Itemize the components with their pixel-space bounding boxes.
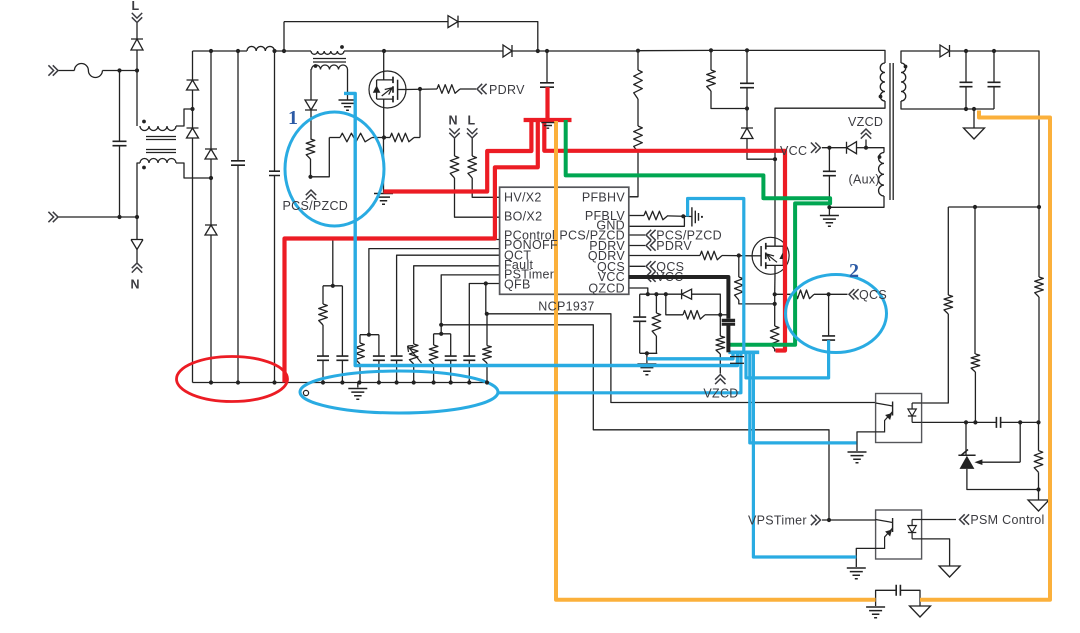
optocoupler U4 <box>876 510 922 559</box>
ground G14 right <box>1028 500 1049 511</box>
annotation ellipse 2 <box>786 275 887 353</box>
flag PSM Control <box>960 514 970 524</box>
wire divider to node <box>974 372 976 422</box>
wire C11 to bus <box>378 360 380 382</box>
svg-text:PDRV: PDRV <box>489 83 525 97</box>
PFC T1 aux winding <box>312 65 348 70</box>
junction qzcd a <box>646 292 650 296</box>
T2 secondary polarity dot <box>904 65 908 69</box>
wire col2 down to bus <box>210 235 212 383</box>
resistor R9 snub <box>707 70 716 91</box>
diode D1 bridge <box>187 80 199 90</box>
resistor R7 fbhv1 <box>634 70 643 99</box>
black dash bundle2 <box>730 362 744 364</box>
resistor R13 div upper <box>971 354 980 372</box>
diode DN on N line <box>131 240 143 250</box>
annotation ellipse 1 <box>285 112 384 226</box>
resistor R14 pcontrol <box>319 304 328 325</box>
capacitor C7 comp <box>996 417 1000 428</box>
wire choke top left <box>136 71 138 127</box>
junction tl431 cath <box>964 420 968 424</box>
ground G9 opto1 <box>848 452 867 463</box>
cyan bundle bar <box>728 350 759 354</box>
resistor R23 qzcd row2 <box>683 311 705 320</box>
flag QCS e2 <box>849 289 859 299</box>
wire qcs sense link <box>774 294 776 326</box>
wire PSTimer bracket <box>434 333 451 335</box>
red staircase2 <box>285 120 538 383</box>
junction bus 8 <box>467 380 471 384</box>
wire PSTimer R leg <box>433 334 435 345</box>
optocoupler U2 <box>876 394 922 443</box>
flag VPSTimer <box>811 515 821 525</box>
wire C13 to bus <box>450 360 452 382</box>
junction ref drop <box>1018 420 1022 424</box>
annotation ellipse red <box>177 357 288 402</box>
wire rail diode to hub <box>512 50 547 52</box>
PFC aux polarity dot <box>314 64 318 68</box>
wire C10 to bus <box>341 360 343 382</box>
svg-text:PFBHV: PFBHV <box>582 190 626 204</box>
junction rail col2 <box>209 49 213 53</box>
svg-text:N: N <box>449 114 458 128</box>
T2 aux winding <box>879 153 884 197</box>
wire fb divider mid <box>637 99 639 126</box>
svg-text:N: N <box>131 278 140 292</box>
wire pin GND <box>629 217 685 227</box>
flag PDRV pin <box>646 240 656 250</box>
resistor R3 gate-src <box>390 133 414 142</box>
wire hub cap top <box>546 51 548 83</box>
flag PCS/PZCD pin <box>646 230 656 240</box>
diode D5 bypass <box>448 16 458 28</box>
wire R1 to pcs node <box>310 159 312 177</box>
flag VZCD up aux <box>861 129 871 139</box>
junction qdrv <box>737 253 741 257</box>
capacitor C bulk <box>231 161 245 165</box>
junction qcs top <box>773 292 777 296</box>
wire sec gnd stem <box>973 109 975 128</box>
capacitor C8 ycap <box>896 585 900 596</box>
wire qzcd diode row <box>666 293 682 295</box>
wire ycap right <box>900 590 920 606</box>
junction rail hub cap <box>545 49 549 53</box>
capacitor C16 qzcd <box>633 317 646 321</box>
wire row2 to vcc cap <box>720 314 728 316</box>
wire R19 to gnd <box>668 215 692 218</box>
T2 primary winding <box>880 63 885 101</box>
wire out cap1 top <box>965 51 967 82</box>
junction mid right <box>1037 205 1041 209</box>
diode D4 bridge <box>205 225 217 235</box>
junction out c2 <box>992 49 996 53</box>
junction pfblv <box>681 214 685 218</box>
junction mid 975 <box>973 205 977 209</box>
junction bus 9 <box>485 380 489 384</box>
capacitor C14 qfb <box>463 356 475 360</box>
diode D3 bridge <box>205 149 217 159</box>
wire tl431 anode <box>967 469 1039 490</box>
junction col1 choke <box>190 107 194 111</box>
wire rail hub to PFB <box>547 50 638 52</box>
wire R24 down <box>719 354 721 374</box>
wire R6 to HV/X2 <box>472 178 500 197</box>
wire C9 to bus <box>322 360 324 382</box>
capacitor C2 hub <box>540 83 554 87</box>
wire D11 right <box>692 294 721 315</box>
diode D6 boost <box>503 45 512 57</box>
resistor R24 vzcd <box>716 336 725 354</box>
choke top polarity dot <box>142 120 146 124</box>
IC U1 NCP1937 box <box>500 187 629 294</box>
diode D8 snub <box>741 128 753 139</box>
junction bus 3 <box>377 380 381 384</box>
svg-text:NCP1937: NCP1937 <box>538 300 594 314</box>
terminal input1 chevron <box>48 65 58 75</box>
wire rail drain to diode <box>384 50 503 52</box>
wire opto2 emitter gnd <box>856 548 875 567</box>
junction live choke <box>135 68 139 72</box>
wire ycap left <box>876 590 897 606</box>
flag VCC pin <box>646 271 656 281</box>
wire snub C bottom <box>746 88 748 109</box>
junction qzcd row2 <box>718 313 722 317</box>
flag PDRV left <box>477 84 487 94</box>
ground G1 pfc aux <box>339 100 357 110</box>
wire bridge col1 top <box>192 51 194 80</box>
resistor R1 pcs <box>306 139 315 159</box>
wire rail PFB to snubR <box>638 49 711 51</box>
resistor R5 Nsense <box>450 156 459 178</box>
wire Q1 source <box>383 108 385 138</box>
svg-text:VZCD: VZCD <box>703 387 738 401</box>
red vcc feed <box>544 120 785 351</box>
wire pin VCC thick <box>629 277 729 319</box>
wire pin Fault <box>414 266 500 344</box>
wire led pullup top <box>947 207 949 295</box>
wire PSTimer C leg <box>450 334 452 356</box>
capacitor C9 pcontrol <box>317 356 329 360</box>
diode D10 output <box>940 45 950 57</box>
wire tl431 cath stem <box>965 422 967 455</box>
wire pin PCS stub <box>629 234 645 236</box>
wire gate-src riser <box>419 89 421 138</box>
wire QFB R branch <box>486 284 487 346</box>
wire aux right down <box>347 70 349 100</box>
wire Rsense to src node <box>372 137 384 139</box>
wire snub C top <box>746 50 748 83</box>
wire opto2 output <box>922 519 957 521</box>
transistor Q2 flyback <box>752 237 789 274</box>
junction PONOFF node <box>367 333 371 337</box>
junction PSTimer branch <box>439 323 443 327</box>
diode DL on L line <box>131 39 143 50</box>
svg-text:HV/X2: HV/X2 <box>504 191 542 205</box>
junction rail drain <box>382 49 386 53</box>
wire right col low <box>1038 472 1040 489</box>
wire L to diode <box>136 23 138 39</box>
wire rail to PFC coil <box>275 50 312 52</box>
wire gate pd bottom <box>739 300 775 304</box>
capacitor C5 out <box>960 82 973 86</box>
junction rail snub C <box>745 48 749 52</box>
wire R3 to riser <box>414 137 420 139</box>
wire vcc cap top <box>828 148 830 172</box>
diode D7 aux <box>305 100 317 110</box>
wire qzcd cap leg <box>639 294 641 317</box>
wire pin PDRV stub <box>629 245 645 247</box>
wire snub R top <box>710 50 712 70</box>
wire col2 mid <box>210 159 212 225</box>
wire aux top <box>866 148 884 153</box>
red staircase1 <box>384 120 532 192</box>
wire out cap2 bottom <box>993 87 995 109</box>
wire qzcd bottom bar <box>640 352 658 354</box>
PFC inductor T1 primary <box>311 51 344 54</box>
svg-text:QFB: QFB <box>504 278 531 292</box>
red hub stem <box>545 87 549 120</box>
wire gate to Rgate <box>406 88 437 91</box>
orange right loop <box>920 111 1050 600</box>
junction tl431 anode <box>1036 487 1040 491</box>
wire PControl bracket <box>323 285 342 287</box>
junction snub <box>745 106 749 110</box>
wire qzcd R23 left <box>666 294 683 315</box>
choke core line2 <box>146 139 176 141</box>
ground G5 qzcd <box>637 364 656 375</box>
resistor R10 right top <box>1035 277 1044 297</box>
wire srcnode to R3 <box>384 137 390 139</box>
wire right col to R11 <box>1038 422 1040 450</box>
wire snubR to snub node <box>711 91 747 109</box>
wire Q1 drain <box>383 51 385 71</box>
junction bus 5 <box>412 380 416 384</box>
wire pullup to opto1 <box>922 314 949 403</box>
choke L1 bottom winding <box>140 159 176 164</box>
resistor R2 sense <box>340 133 372 142</box>
capacitor C10 pcontrol <box>336 356 348 360</box>
wire rail snubR to snubC <box>711 49 747 51</box>
wire Q2 drain <box>774 159 776 237</box>
junction mosfet1 source node <box>382 135 386 139</box>
PFC core line1 <box>313 58 346 60</box>
diode D2 bridge <box>187 128 199 138</box>
svg-text:VZCD: VZCD <box>848 115 883 129</box>
capacitor C4 vcc aux <box>823 171 836 175</box>
main ground bus <box>193 382 489 384</box>
inductor L2 filter <box>247 46 275 51</box>
resistor R16 fault <box>409 344 418 364</box>
svg-text:PDRV: PDRV <box>656 239 692 253</box>
wire col4 rail to cap <box>274 51 276 171</box>
wire pin QCS stub <box>629 265 645 267</box>
wire opto1 cath line <box>922 421 997 423</box>
wire bypass top left <box>284 21 448 23</box>
junction vcc <box>827 146 831 150</box>
annotation ellipse bus <box>300 371 498 413</box>
resistor R12 led pullup <box>944 295 953 314</box>
junction live Xcap <box>117 68 121 72</box>
wire input1 stub <box>58 70 74 72</box>
resistor R26 qcs filt <box>793 290 814 299</box>
cyan qzcd gnd link <box>647 354 733 359</box>
wire R26 to node <box>814 293 848 295</box>
junction col4 bus <box>272 380 276 384</box>
wire R24 top <box>719 315 721 336</box>
flag PCS/PZCD up <box>306 190 316 200</box>
wire vcc node <box>822 147 847 149</box>
wire choke bottom right <box>176 163 211 178</box>
T2 primary polarity dot <box>879 95 883 99</box>
ground G8 secondary <box>964 128 985 139</box>
resistor R4 pdrv gate <box>437 85 460 94</box>
resistor R11 right bottom <box>1034 451 1043 473</box>
resistor R21 gate pd <box>735 277 744 300</box>
wire snub diode down <box>747 139 775 160</box>
wire PONOFF C leg <box>378 335 380 356</box>
resistor R8 fbhv2 <box>634 126 643 152</box>
wire C15 down thick <box>726 324 730 352</box>
wire PControl R leg <box>322 286 324 304</box>
junction right 422 <box>1036 420 1040 424</box>
wire R14 to C <box>322 325 324 356</box>
junction rail bypass <box>282 49 286 53</box>
junction bus 0 <box>321 380 325 384</box>
junction qcs mid <box>773 302 777 306</box>
wire qcs out <box>775 293 793 295</box>
choke L1 top winding <box>140 126 176 131</box>
junction QFB lower <box>485 312 489 316</box>
green wire <box>566 120 830 345</box>
junction vcc cap gnd <box>827 205 831 209</box>
T2 core line1 <box>889 63 891 200</box>
junction qzcd c <box>664 292 668 296</box>
junction drain snub <box>773 157 777 161</box>
fuse F1 <box>74 64 102 78</box>
junction bus 7 <box>449 380 453 384</box>
junction gate node <box>418 87 422 91</box>
svg-text:VCC: VCC <box>780 144 807 158</box>
TL431 ref arrow <box>974 459 982 465</box>
ground G11 opto2 <box>939 566 960 577</box>
wire snub node to diode <box>746 109 748 129</box>
wire pin QZCD <box>629 288 648 294</box>
wire bulk col bottom <box>237 165 239 382</box>
choke core line1 <box>146 136 176 138</box>
wire out cap2 top <box>993 51 995 82</box>
svg-text:1: 1 <box>288 107 298 129</box>
wire choke bottom left <box>137 163 140 217</box>
wire right col upper <box>1038 207 1040 277</box>
cyan wire main <box>344 93 737 365</box>
svg-text:VPSTimer: VPSTimer <box>748 514 807 528</box>
resistor R17 pstimer <box>429 345 438 364</box>
ground G13 ycap right <box>910 606 931 617</box>
wire vzcd stub <box>865 140 867 148</box>
svg-text:L: L <box>468 114 476 128</box>
wire R18 to bus <box>486 363 488 383</box>
resistor R15 ponoff <box>356 343 365 364</box>
wire R20 to gate <box>722 255 752 257</box>
junction qcs rc <box>827 292 831 296</box>
svg-text:PSM Control: PSM Control <box>970 513 1044 527</box>
black dash bundle1 <box>730 356 744 358</box>
junction aux node <box>864 146 868 150</box>
wire pcs node right <box>311 138 330 177</box>
wire R22 down <box>655 336 657 353</box>
wire C14 to bus <box>468 360 470 382</box>
capacitor C12 qct <box>391 356 403 360</box>
junction qzcd gnd <box>645 351 649 355</box>
wire pin PControl <box>333 240 500 286</box>
svg-text:L: L <box>132 0 140 13</box>
wire qzcd row1 <box>640 293 666 295</box>
junction bus 2 <box>357 380 361 384</box>
ground G10 opto2 <box>847 568 866 579</box>
junction rail PFBHV <box>636 49 640 53</box>
wire right col mid <box>1038 297 1040 422</box>
ground G3 hub <box>541 123 554 129</box>
svg-text:QZCD: QZCD <box>588 282 625 296</box>
junction neutral choke <box>135 215 139 219</box>
wire R23 right <box>705 314 720 316</box>
wire aux left down <box>310 70 313 101</box>
ground G2 below Q1 <box>374 194 393 205</box>
wire diode to live rail <box>136 50 138 71</box>
wire output rail <box>950 51 1040 207</box>
wire PSTimer to opto2 <box>441 325 829 520</box>
wire pin PFBLV <box>629 215 644 217</box>
wire pin PFBHV <box>629 196 638 198</box>
wire Xcap bottom <box>119 146 121 217</box>
wire vpstimer node <box>822 519 876 521</box>
diode D11 qzcd <box>682 289 692 299</box>
red hub bar <box>524 118 572 122</box>
wire L flag to R <box>471 138 473 156</box>
wire rail to transformer <box>747 50 885 63</box>
wire vcc cap bottom <box>828 176 830 215</box>
wire qzcd gnd stem <box>646 353 648 363</box>
wire qzcd R leg <box>655 294 657 313</box>
wire secondary top <box>901 51 940 63</box>
T2 aux polarity dot <box>878 155 882 159</box>
diode D9 vcc <box>847 142 857 154</box>
annotation small circle <box>303 390 308 395</box>
wire out mid node <box>948 206 1039 208</box>
junction rail bulk <box>236 49 240 53</box>
flag VZCD up <box>715 375 725 385</box>
wire aux bottom <box>829 196 884 207</box>
flag N down <box>449 128 459 138</box>
wire PONOFF bracket <box>360 334 379 336</box>
orange left loop <box>556 121 876 600</box>
junction sec gnd1 <box>964 107 968 111</box>
junction bus 6 <box>432 380 436 384</box>
wire PFBHV divider top <box>637 51 639 70</box>
wire bypass riser <box>283 22 285 51</box>
wire right gnd stem <box>1038 490 1040 501</box>
wire bulk col top <box>237 51 239 161</box>
junction qzcd b <box>654 292 658 296</box>
wire bypass top right <box>458 22 538 51</box>
wire vcc diode to aux node <box>857 147 867 149</box>
wire out cap1 bottom <box>965 87 967 109</box>
junction out c1 <box>964 49 968 53</box>
wire secondary bottom <box>901 101 994 109</box>
wire pin PONOFF <box>369 249 500 335</box>
wire R15 to bus <box>359 364 361 383</box>
junction rail col4 <box>272 49 276 53</box>
